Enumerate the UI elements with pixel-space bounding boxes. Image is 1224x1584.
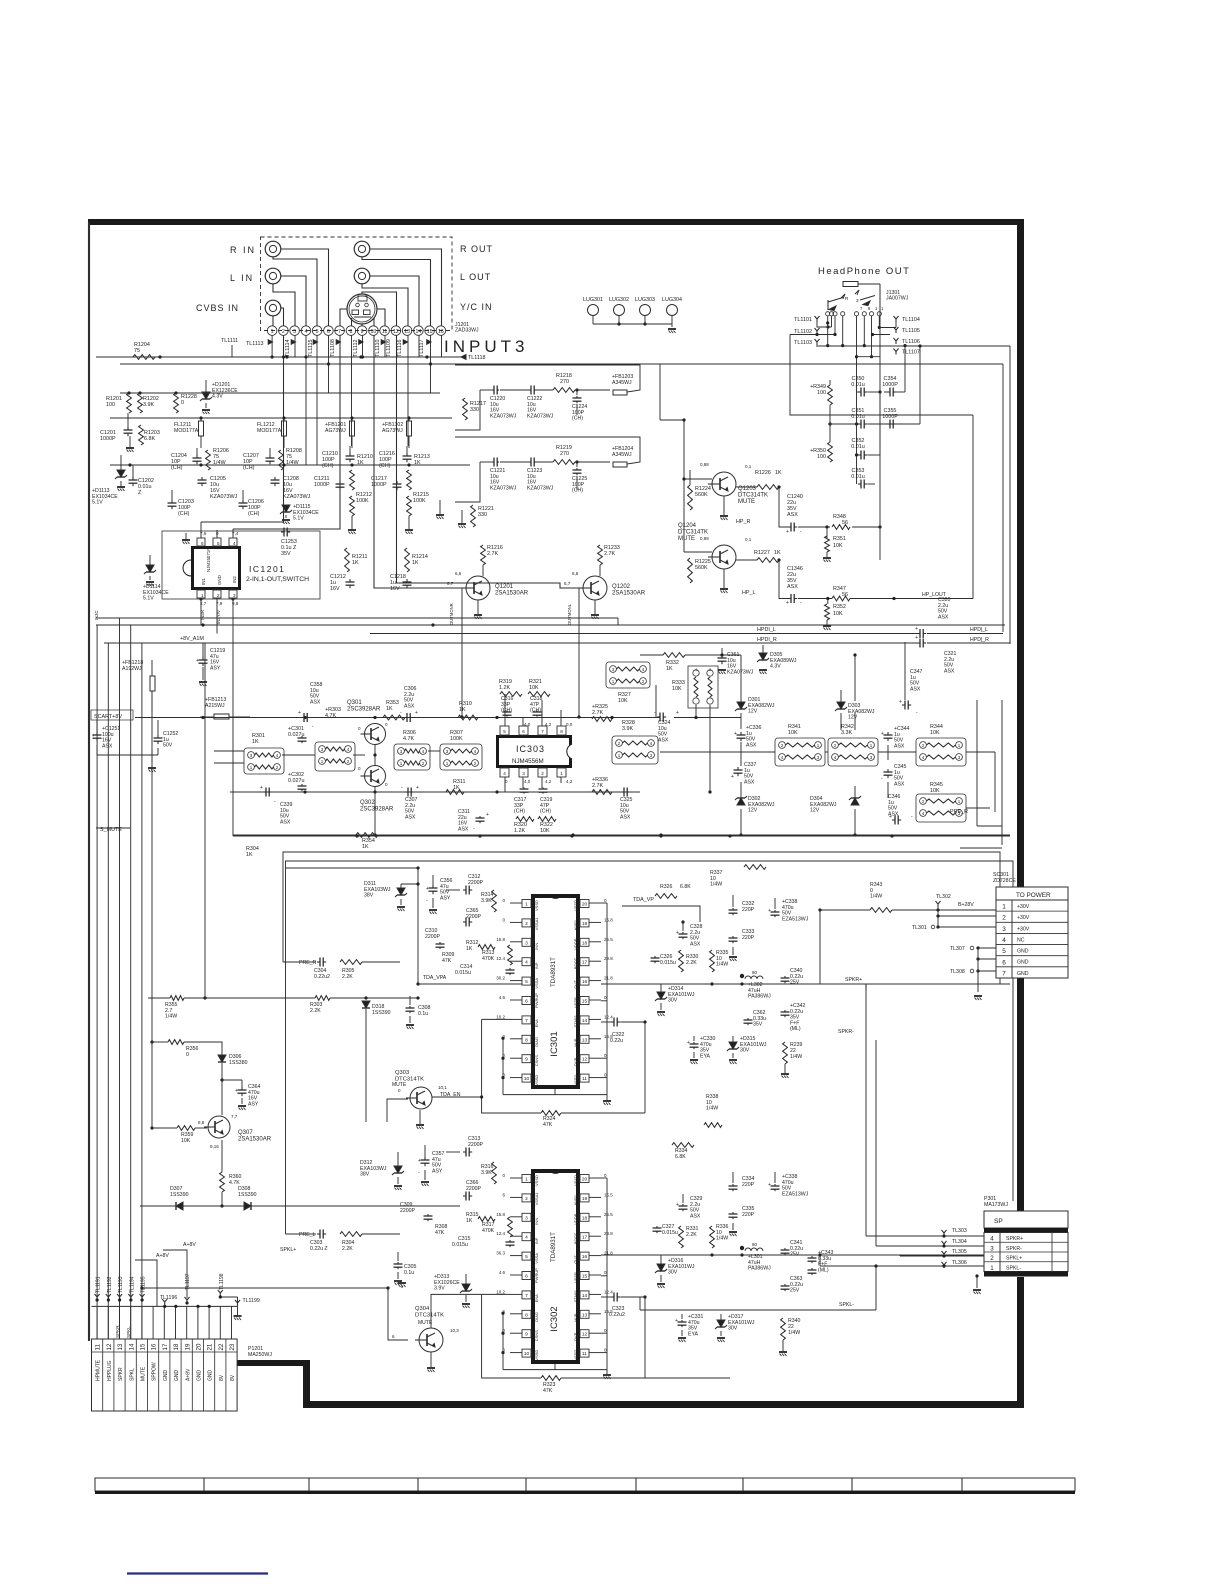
svg-text:TL1103: TL1103 <box>794 340 812 346</box>
svg-text:ENA: ENA <box>534 1019 539 1028</box>
wires IC303 pins <box>505 694 573 792</box>
svg-text:5: 5 <box>217 541 220 546</box>
svg-text:1SS380: 1SS380 <box>229 1060 248 1066</box>
svg-text:4.3V: 4.3V <box>770 664 781 670</box>
capacitor C301 <box>288 726 307 743</box>
svg-text:+: + <box>676 930 679 936</box>
svg-text:ENA: ENA <box>534 1294 539 1303</box>
capacitor C330 <box>687 1036 716 1064</box>
svg-text:DIAG: DIAG <box>534 1037 539 1047</box>
svg-text:+: + <box>676 1202 679 1208</box>
capacitor C351 <box>828 392 867 484</box>
wires P1201 pins <box>97 1306 231 1339</box>
capacitor C1220 <box>490 386 517 420</box>
svg-text:BOOT: BOOT <box>573 1232 578 1244</box>
svg-text:4: 4 <box>695 668 697 672</box>
svg-text:R OUT: R OUT <box>460 244 493 254</box>
label INPUT3 <box>444 337 528 356</box>
svg-text:GND: GND <box>163 1370 169 1382</box>
svg-text:0.015u: 0.015u <box>452 1242 468 1248</box>
svg-text:HVP1: HVP1 <box>573 919 578 930</box>
svg-text:4: 4 <box>304 329 307 335</box>
capacitor C327 <box>653 1224 678 1236</box>
svg-text:4.6: 4.6 <box>499 1270 506 1275</box>
capacitor C1216 <box>379 446 412 469</box>
capacitor C316 <box>501 696 514 717</box>
svg-text:MA250WJ: MA250WJ <box>248 1352 272 1358</box>
diode D308 <box>222 1186 460 1210</box>
ferrite FB1204 <box>612 446 633 467</box>
svg-text:6,6: 6,6 <box>455 571 462 576</box>
svg-text:KZA073WJ: KZA073WJ <box>490 413 517 419</box>
resistor R314 <box>481 890 496 912</box>
svg-text:9: 9 <box>361 329 364 335</box>
svg-text:KZA073WJ: KZA073WJ <box>490 485 517 491</box>
svg-text:2200P: 2200P <box>466 914 482 920</box>
capacitor C337 <box>731 762 757 785</box>
svg-text:1SS390: 1SS390 <box>238 1192 257 1198</box>
svg-text:MOD177A: MOD177A <box>257 428 282 434</box>
resistor R1204 <box>133 342 162 359</box>
svg-text:ASX: ASX <box>894 781 905 787</box>
svg-text:15: 15 <box>140 1343 147 1350</box>
resistor R303b <box>310 996 420 1014</box>
ground Q303 <box>416 1110 424 1129</box>
capacitor C365 <box>463 908 482 927</box>
wires q301 cluster <box>214 722 440 835</box>
svg-text:OVP: OVP <box>573 1332 578 1341</box>
svg-text:0.22u2: 0.22u2 <box>609 1312 625 1318</box>
label HP_L <box>742 590 756 596</box>
svg-text:SPKR+: SPKR+ <box>1006 1236 1023 1242</box>
resistor R331 <box>679 1226 699 1248</box>
svg-text:CSNS: CSNS <box>534 1055 539 1066</box>
svg-text:0.01u: 0.01u <box>851 444 865 450</box>
svg-text:KZA073WJ: KZA073WJ <box>527 485 554 491</box>
input3 dashed box <box>261 237 453 331</box>
capacitor C1225 <box>572 468 587 494</box>
svg-text:14: 14 <box>582 1293 588 1299</box>
label HP_R <box>736 519 750 525</box>
resistor R304 <box>246 846 259 858</box>
transistor Q303 <box>392 1070 461 1109</box>
svg-text:2200P: 2200P <box>425 934 441 940</box>
svg-text:330: 330 <box>470 407 479 413</box>
wires hp r <box>736 284 882 560</box>
svg-text:16V: 16V <box>330 586 340 592</box>
wire to power pin2 <box>936 914 996 917</box>
ground Q1201 <box>474 600 482 619</box>
svg-text:6: 6 <box>327 329 330 335</box>
ground input filter 1 <box>126 436 134 452</box>
capacitor C344 <box>881 726 910 749</box>
svg-text:NJM15071N: NJM15071N <box>206 548 211 572</box>
svg-text:2: 2 <box>709 668 711 672</box>
transistor Q301 <box>347 700 386 745</box>
svg-text:6.8K: 6.8K <box>675 1154 686 1160</box>
testpoint TL1115 <box>308 340 318 357</box>
resistor R337 <box>710 865 766 888</box>
svg-text:TL1104: TL1104 <box>902 317 920 323</box>
capacitor C1224 <box>572 396 587 422</box>
svg-text:+: + <box>768 1182 771 1188</box>
wire bus y618 <box>96 618 618 625</box>
svg-text:2-IN,1-OUT,SWITCH: 2-IN,1-OUT,SWITCH <box>246 576 309 583</box>
svg-text:SPPOW: SPPOW <box>152 1362 158 1381</box>
capacitor C328 <box>676 920 703 947</box>
svg-text:KZA073WJ: KZA073WJ <box>727 669 754 675</box>
wire riser x418 <box>286 866 420 985</box>
resistor R1212 <box>350 492 372 516</box>
svg-text:0.22u: 0.22u <box>610 1038 623 1044</box>
svg-text:HPDI_L: HPDI_L <box>757 627 776 633</box>
svg-text:18: 18 <box>582 940 588 946</box>
transistor Q302 <box>360 766 394 813</box>
capacitor C346 <box>888 794 913 825</box>
label CVBS IN <box>196 303 239 313</box>
svg-text:4: 4 <box>525 960 528 966</box>
svg-text:+30V: +30V <box>1017 926 1030 932</box>
jack L IN <box>265 268 281 284</box>
svg-text:OVP: OVP <box>573 1057 578 1066</box>
label A+8V a <box>163 1242 196 1298</box>
testpoint TL307 <box>950 946 996 952</box>
jack CVBS IN <box>265 300 281 316</box>
svg-text:1/4W: 1/4W <box>716 1236 728 1242</box>
revision strip table <box>95 1478 1075 1494</box>
wires IC301 right pins <box>501 898 613 1105</box>
wire bus y642 <box>104 635 1010 648</box>
filter FL1212 <box>257 418 287 448</box>
svg-text:470K: 470K <box>482 1228 495 1234</box>
zener D302 <box>735 796 775 814</box>
svg-text:TDA_VPA: TDA_VPA <box>423 975 447 981</box>
svg-text:3: 3 <box>1002 926 1006 933</box>
capacitor C363 <box>781 1276 804 1294</box>
svg-text:9: 9 <box>525 1332 528 1338</box>
ground input filter 2 <box>348 516 356 534</box>
svg-text:ASY: ASY <box>440 895 451 901</box>
svg-text:INPUT3: INPUT3 <box>444 337 528 356</box>
svg-text:3.3K: 3.3K <box>841 730 852 736</box>
testpoint TL301 <box>912 904 996 931</box>
svg-text:+: + <box>92 733 95 739</box>
svg-text:TL1192: TL1192 <box>107 1276 113 1293</box>
svg-text:+30V: +30V <box>1017 915 1030 921</box>
wire tl row <box>92 1305 238 1308</box>
svg-text:12V: 12V <box>810 808 820 814</box>
svg-text:16: 16 <box>151 1343 158 1350</box>
svg-text:330: 330 <box>478 512 487 518</box>
svg-text:100K: 100K <box>450 736 463 742</box>
testpoint TL306 <box>820 1255 984 1268</box>
svg-text:8: 8 <box>525 1312 528 1318</box>
svg-text:TL306: TL306 <box>952 1260 967 1266</box>
svg-text:INN: INN <box>534 1218 539 1225</box>
svg-text:2SC3928AR: 2SC3928AR <box>347 707 381 713</box>
testpoint TL1109 <box>386 339 392 357</box>
svg-text:(CH): (CH) <box>322 463 334 469</box>
svg-text:20: 20 <box>582 1177 588 1183</box>
svg-text:TL1116: TL1116 <box>397 340 403 357</box>
svg-text:SPKL+: SPKL+ <box>280 1247 296 1253</box>
capacitor C1251 <box>92 720 120 749</box>
svg-text:25V: 25V <box>790 980 800 986</box>
capacitor C1223 <box>527 458 554 492</box>
svg-text:+: + <box>676 710 679 716</box>
svg-text:SPKL-: SPKL- <box>839 1302 854 1308</box>
capacitor C1201 <box>100 413 133 442</box>
wire right riser 1 <box>904 642 906 700</box>
svg-text:10K: 10K <box>529 685 539 691</box>
capacitor C338a <box>768 898 809 922</box>
svg-text:270: 270 <box>560 379 569 385</box>
svg-text:(CH): (CH) <box>171 465 183 471</box>
svg-text:1K: 1K <box>252 739 259 745</box>
svg-text:IC303: IC303 <box>516 744 545 754</box>
svg-text:OUT: OUT <box>573 1255 578 1264</box>
label A+8V b <box>135 1253 169 1306</box>
svg-text:Q307: Q307 <box>238 1130 253 1136</box>
svg-text:ZAD33WJ: ZAD33WJ <box>455 328 479 334</box>
svg-text:47K: 47K <box>543 1122 553 1128</box>
label P1201 <box>248 1346 272 1358</box>
svg-text:1: 1 <box>990 1265 994 1272</box>
label HeadPhone OUT <box>818 266 910 277</box>
svg-text:(ML): (ML) <box>818 1267 829 1273</box>
resistor R342 network <box>828 724 878 766</box>
svg-text:6: 6 <box>201 541 204 546</box>
testpoint TL1116 <box>397 340 408 357</box>
label PRE_R <box>950 809 968 815</box>
svg-text:17: 17 <box>162 1343 169 1350</box>
svg-text:16: 16 <box>438 329 444 335</box>
wires headphone rc network <box>790 335 973 599</box>
svg-text:SPKR: SPKR <box>118 1367 124 1381</box>
svg-text:100: 100 <box>817 454 826 460</box>
svg-text:2200P: 2200P <box>468 1142 484 1148</box>
resistor R1216 <box>481 545 503 565</box>
svg-text:2: 2 <box>525 921 528 927</box>
svg-text:GND: GND <box>1017 949 1029 955</box>
svg-text:SPKR: SPKR <box>115 1325 120 1338</box>
resistor R239 <box>781 1042 803 1078</box>
svg-text:1000P: 1000P <box>100 436 116 442</box>
wire box power amp outer <box>283 852 1000 984</box>
svg-text:EYA: EYA <box>700 1053 711 1059</box>
wires IC301 left pins <box>496 898 522 1078</box>
svg-text:VSSD: VSSD <box>534 1350 539 1361</box>
svg-text:GND: GND <box>1017 960 1029 966</box>
capacitor C334 <box>729 1172 755 1191</box>
testpoints TL1191-TL1195 <box>95 1276 147 1301</box>
svg-text:IN3C: IN3C <box>94 610 99 620</box>
svg-text:MUTE: MUTE <box>738 499 755 505</box>
svg-text:9: 9 <box>525 1057 528 1063</box>
wire out row IC301 <box>601 982 1010 985</box>
svg-text:4,0: 4,0 <box>524 779 531 784</box>
resistor R1215 <box>407 492 429 516</box>
svg-text:R IN: R IN <box>230 245 256 255</box>
capacitor C312 <box>446 874 484 895</box>
capacitor C314 <box>455 964 515 976</box>
svg-text:TL302: TL302 <box>936 894 951 900</box>
svg-text:2.2K: 2.2K <box>342 974 353 980</box>
testpoint TL1197 <box>185 1273 192 1304</box>
svg-text:VSSP: VSSP <box>573 997 578 1008</box>
wires IC302 right pins <box>501 1173 613 1379</box>
svg-text:15.8: 15.8 <box>604 917 613 922</box>
resistor R326 <box>655 884 691 898</box>
svg-text:KZA073WJ: KZA073WJ <box>527 413 554 419</box>
svg-text:1: 1 <box>271 329 274 335</box>
transistor Q307 <box>198 1114 272 1149</box>
svg-text:OUTMONR: OUTMONR <box>449 603 454 625</box>
svg-text:12: 12 <box>582 1332 588 1338</box>
svg-text:2: 2 <box>282 329 285 335</box>
svg-text:10: 10 <box>524 1076 530 1082</box>
wire spkr plus <box>820 977 866 990</box>
label L OUT <box>460 272 491 282</box>
diode D1201 <box>200 380 238 414</box>
svg-text:3.9K: 3.9K <box>143 402 154 408</box>
svg-text:75: 75 <box>134 348 140 354</box>
resistor R315 <box>466 1212 495 1224</box>
svg-text:ASX: ASX <box>787 584 798 590</box>
filter +FB1302 <box>382 418 412 448</box>
svg-text:R352: R352 <box>833 604 846 610</box>
resistor R340 <box>779 1318 801 1356</box>
svg-text:TL1109: TL1109 <box>386 339 392 357</box>
resistor R1224 <box>688 485 711 510</box>
testpoint TL1198 <box>218 1273 238 1298</box>
svg-text:1: 1 <box>525 902 528 908</box>
svg-text:PA386WJ: PA386WJ <box>748 994 771 1000</box>
svg-text:6: 6 <box>1002 959 1006 966</box>
svg-text:220P: 220P <box>742 907 755 913</box>
svg-text:29.8: 29.8 <box>604 956 613 961</box>
svg-text:ASX: ASX <box>658 737 669 743</box>
svg-text:ASY: ASY <box>432 1168 443 1174</box>
svg-text:14: 14 <box>582 1018 588 1024</box>
resistor R351 <box>825 536 846 552</box>
svg-text:7: 7 <box>338 329 341 335</box>
svg-text:15: 15 <box>582 1274 588 1280</box>
svg-text:1: 1 <box>201 593 204 598</box>
svg-text:MUTE: MUTE <box>678 536 695 542</box>
svg-text:29.8: 29.8 <box>604 1231 613 1236</box>
page frame left border <box>88 222 90 1341</box>
svg-text:5: 5 <box>525 1254 528 1260</box>
resistor R333 network <box>672 666 718 708</box>
svg-text:0,88: 0,88 <box>700 536 709 541</box>
label SPKR- <box>838 1029 876 1246</box>
svg-text:10,1: 10,1 <box>438 1085 447 1090</box>
resistor R330 <box>679 950 699 972</box>
box around IC1201 <box>162 531 320 601</box>
wire box power amp outer2 <box>286 861 1014 1234</box>
testpoint TL1196 <box>160 1295 177 1305</box>
svg-text:3: 3 <box>525 1215 528 1221</box>
resistor R325 <box>592 704 612 721</box>
svg-text:50V: 50V <box>163 743 173 749</box>
svg-text:8V: 8V <box>230 1374 236 1381</box>
capacitor C326 <box>651 954 676 966</box>
svg-text:15.8: 15.8 <box>496 937 505 942</box>
svg-text:PA386WJ: PA386WJ <box>748 1266 771 1272</box>
svg-text:12: 12 <box>582 1057 588 1063</box>
svg-text:35V: 35V <box>753 1022 763 1028</box>
svg-text:A345WJ: A345WJ <box>612 452 632 458</box>
svg-text:Q304: Q304 <box>415 1306 430 1312</box>
op-amp IC303 <box>496 726 572 777</box>
wire rail3 y835 <box>233 833 1010 836</box>
svg-text:+: + <box>235 1088 238 1094</box>
svg-text:+: + <box>915 635 918 641</box>
testpoint TL1199 <box>234 1297 260 1320</box>
svg-text:Q1202: Q1202 <box>612 584 631 590</box>
svg-text:ASX: ASX <box>690 941 701 947</box>
capacitor C342 <box>781 1003 806 1032</box>
capacitor C352 <box>851 438 867 460</box>
svg-text:KZA073WJ: KZA073WJ <box>283 494 311 500</box>
resistor R1206 <box>206 448 229 470</box>
capacitor C366 <box>463 1180 482 1201</box>
ground R351 <box>823 552 831 562</box>
capacitor C317 <box>514 788 529 815</box>
zener D311 <box>364 881 418 911</box>
svg-text:PWRUP: PWRUP <box>534 993 539 1008</box>
svg-text:11: 11 <box>582 1076 587 1082</box>
zener D314 <box>655 984 695 1016</box>
label IN3C <box>94 610 99 620</box>
svg-text:R1226: R1226 <box>755 470 771 476</box>
svg-text:A+8V: A+8V <box>183 1242 196 1248</box>
svg-text:4: 4 <box>525 1235 528 1241</box>
wire q303 stub <box>387 1099 408 1122</box>
svg-text:ASX: ASX <box>280 819 291 825</box>
svg-text:+: + <box>298 710 301 716</box>
resistor R313 <box>482 945 512 965</box>
svg-text:12.4: 12.4 <box>604 1289 613 1294</box>
svg-text:1K: 1K <box>362 844 369 850</box>
capacitor C305 <box>394 1252 417 1285</box>
svg-text:R326: R326 <box>660 884 673 890</box>
svg-text:3: 3 <box>522 771 525 776</box>
capacitor C315 <box>452 1236 515 1248</box>
svg-text:VSSA: VSSA <box>534 1253 539 1264</box>
svg-text:1SS390: 1SS390 <box>170 1192 189 1198</box>
capacitor C364 <box>222 1080 261 1110</box>
svg-text:0.22u2: 0.22u2 <box>314 974 330 980</box>
svg-text:12.4: 12.4 <box>604 1014 613 1019</box>
svg-text:12.4: 12.4 <box>496 1231 505 1236</box>
svg-text:+: + <box>899 699 902 705</box>
svg-text:25.5: 25.5 <box>604 1212 613 1217</box>
label SPKL+ <box>280 1247 296 1253</box>
connector P1201 <box>92 1339 238 1411</box>
capacitor C303 <box>299 1230 328 1252</box>
svg-text:0: 0 <box>186 1052 189 1058</box>
svg-text:TL1197: TL1197 <box>185 1273 191 1290</box>
svg-text:4: 4 <box>990 1236 994 1243</box>
resistor R308r <box>435 1224 448 1236</box>
svg-text:HP_R: HP_R <box>736 519 750 525</box>
svg-text:(CH): (CH) <box>243 465 255 471</box>
svg-text:1000P: 1000P <box>882 382 898 388</box>
wire gnd tp <box>974 948 982 1000</box>
capacitor C310 <box>425 928 445 949</box>
